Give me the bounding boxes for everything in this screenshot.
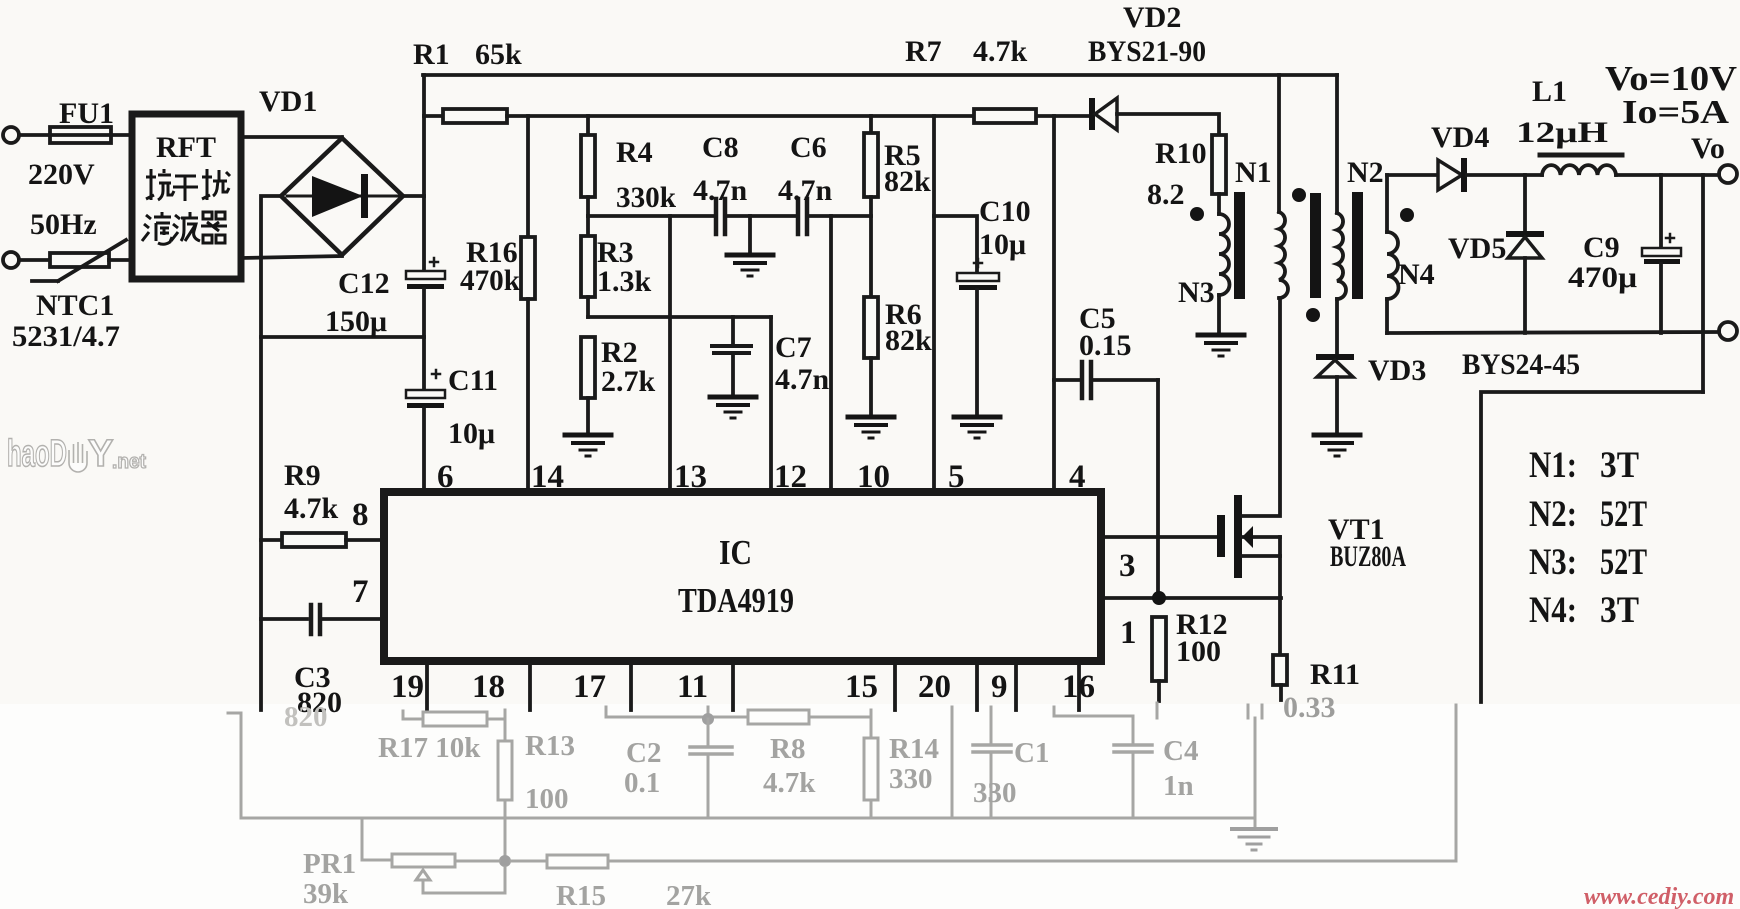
resistor R6: [864, 297, 878, 415]
svg-text:8.2: 8.2: [1147, 178, 1185, 211]
svg-text:R7: R7: [905, 35, 942, 68]
wire IC bottom pin 16: [1077, 661, 1081, 710]
resistor R1: [424, 109, 507, 123]
wire N4 top to VD4: [1387, 173, 1438, 177]
svg-text:0.33: 0.33: [1283, 691, 1336, 724]
svg-text:R17 10k: R17 10k: [378, 732, 481, 764]
watermark haoDIY.net: [7, 433, 146, 475]
svg-text:R9: R9: [284, 459, 321, 492]
wire pin13 vertical: [668, 216, 672, 492]
resistor R4: [581, 116, 595, 216]
terminal Vo+: [1719, 165, 1737, 183]
svg-text:TDA4919: TDA4919: [678, 581, 794, 620]
svg-text:150μ: 150μ: [325, 305, 387, 338]
node dot N2 polarity: [1306, 308, 1320, 322]
svg-text:11: 11: [677, 669, 708, 705]
wire pin20 gray vertical: [951, 707, 954, 818]
svg-text:N2:: N2:: [1529, 494, 1577, 535]
svg-text:19: 19: [391, 669, 424, 705]
svg-text:R13: R13: [525, 730, 575, 762]
wire input bottom: [19, 258, 50, 262]
wire R11 gray continuation: [1248, 705, 1262, 827]
svg-text:VD4: VD4: [1431, 121, 1489, 154]
svg-text:www.cediy.com: www.cediy.com: [1584, 884, 1734, 909]
svg-text:4.7k: 4.7k: [763, 767, 816, 799]
wire bridge right to main rail: [403, 194, 424, 198]
wire gray right vertical: [1455, 705, 1458, 861]
svg-text:C6: C6: [790, 131, 827, 164]
svg-text:27k: 27k: [666, 880, 712, 909]
wire input top: [19, 133, 50, 137]
capacitor C2: [690, 719, 732, 818]
svg-text:6: 6: [437, 459, 454, 495]
wire node216 left: [588, 214, 714, 218]
wire pin5 vertical: [932, 116, 936, 492]
wire VD5 tap: [1523, 175, 1527, 232]
svg-text:0.1: 0.1: [624, 767, 660, 799]
resistor R2: [581, 337, 595, 433]
wire node216 right: [809, 214, 871, 218]
wire VD4 to L1: [1467, 173, 1542, 177]
wire pin11 gray stub: [707, 707, 710, 719]
svg-text:R1: R1: [413, 38, 450, 71]
svg-text:5: 5: [948, 459, 965, 495]
ground gray: [1232, 829, 1276, 850]
svg-text:4.7n: 4.7n: [693, 174, 748, 207]
svg-text:N3:: N3:: [1529, 542, 1577, 583]
wire output bottom rail: [1387, 332, 1719, 333]
wire C5 down vertical: [1156, 380, 1160, 598]
resistor R11: [1273, 655, 1287, 700]
svg-text:3T: 3T: [1600, 590, 1639, 631]
node dot primary polarity: [1292, 188, 1306, 202]
svg-text:N4: N4: [1398, 258, 1435, 291]
svg-text:N1:: N1:: [1529, 445, 1577, 486]
svg-text:C1: C1: [1014, 737, 1049, 769]
transformer winding N2: [1337, 75, 1346, 355]
svg-text:7: 7: [352, 574, 369, 610]
抗: [146, 169, 174, 200]
svg-text:R10: R10: [1155, 137, 1207, 170]
svg-text:N4:: N4:: [1529, 590, 1577, 631]
resistor R13: [498, 710, 512, 861]
transformer primary winding N1: [1279, 75, 1288, 298]
svg-text:82k: 82k: [885, 324, 932, 357]
wire IC bottom pin 17: [629, 661, 633, 710]
svg-text:haoD: haoD: [7, 433, 67, 475]
svg-text:VD1: VD1: [259, 85, 317, 118]
wire pin1 line: [1102, 596, 1281, 600]
svg-text:BYS21-90: BYS21-90: [1088, 35, 1206, 68]
svg-text:C11: C11: [448, 364, 498, 397]
svg-text:Vo: Vo: [1691, 132, 1725, 165]
svg-text:.net: .net: [112, 451, 146, 473]
capacitor C6: [798, 199, 807, 234]
svg-text:FU1: FU1: [59, 97, 114, 130]
wire node317: [588, 315, 771, 319]
svg-text:PR1: PR1: [303, 848, 356, 880]
wire IC bottom pin 11: [731, 661, 735, 710]
svg-text:17: 17: [573, 669, 606, 705]
svg-text:1n: 1n: [1163, 770, 1194, 802]
干: [173, 176, 198, 201]
bridge rectifier VD1: [281, 138, 403, 255]
node junction gray C2: [702, 713, 714, 725]
svg-text:39k: 39k: [303, 878, 349, 909]
svg-text:20: 20: [918, 669, 951, 705]
svg-text:C2: C2: [626, 737, 661, 769]
wire PR1 left: [362, 818, 391, 860]
wire output right vertical: [1701, 175, 1705, 392]
resistor R5: [864, 116, 878, 297]
transformer winding N3: [1219, 214, 1230, 333]
svg-text:15: 15: [845, 669, 878, 705]
wire pin10 vertical: [829, 216, 833, 492]
thermistor NTC1: [32, 240, 126, 281]
capacitor C11: [406, 370, 445, 408]
svg-text:BUZ80A: BUZ80A: [1330, 540, 1406, 573]
wire node216 middle: [727, 214, 796, 218]
svg-text:C8: C8: [702, 131, 739, 164]
svg-text:1: 1: [1120, 615, 1137, 651]
svg-text:L1: L1: [1532, 75, 1567, 108]
svg-text:8: 8: [352, 497, 369, 533]
capacitor C10: [957, 259, 999, 415]
capacitor C1: [973, 707, 1011, 818]
wire second bus: [507, 114, 974, 118]
inductor L1: [1540, 155, 1622, 175]
transformer winding N4: [1387, 175, 1399, 333]
svg-text:VD3: VD3: [1368, 354, 1426, 387]
diode VD3: [1316, 354, 1354, 433]
svg-text:Y: Y: [88, 433, 113, 475]
svg-text:4.7k: 4.7k: [284, 492, 339, 525]
label Chinese kang gan rao lu bo qi: [142, 169, 230, 244]
resistor R9: [261, 533, 384, 547]
svg-text:C10: C10: [979, 195, 1031, 228]
wire IC bottom pin 20: [975, 661, 979, 710]
wire C10 tap: [934, 216, 977, 273]
svg-text:RFT: RFT: [156, 131, 216, 164]
wire IC bottom pin 15: [893, 661, 897, 710]
capacitor C4: [1054, 707, 1152, 818]
svg-text:VD2: VD2: [1123, 1, 1181, 34]
svg-text:NTC1: NTC1: [36, 289, 114, 322]
wire R12 gray stub: [1156, 703, 1159, 718]
svg-text:330: 330: [973, 777, 1017, 809]
transformer core bar 3: [1352, 192, 1363, 299]
svg-text:R8: R8: [770, 733, 805, 765]
wire pin6 vertical: [422, 408, 426, 492]
svg-text:Io=5A: Io=5A: [1622, 94, 1730, 131]
svg-text:C9: C9: [1583, 231, 1620, 264]
svg-text:10μ: 10μ: [448, 417, 495, 450]
svg-text:0.15: 0.15: [1079, 329, 1132, 362]
fuse FU1: [50, 127, 111, 143]
svg-text:100: 100: [525, 783, 569, 815]
扰: [202, 169, 230, 200]
diode VD2: [1089, 98, 1219, 135]
svg-text:220V: 220V: [28, 158, 95, 191]
resistor R10: [1212, 135, 1226, 214]
svg-text:50Hz: 50Hz: [30, 208, 97, 241]
svg-text:820: 820: [284, 701, 328, 733]
svg-text:3: 3: [1119, 548, 1136, 584]
svg-text:4.7k: 4.7k: [973, 35, 1028, 68]
node junction gray R13 PR1 R15: [499, 855, 511, 867]
capacitor C3: [261, 605, 384, 634]
resistor R12: [1152, 617, 1166, 701]
ground C10: [954, 417, 1000, 438]
node dot N4 polarity: [1400, 208, 1414, 222]
svg-text:13: 13: [674, 459, 707, 495]
wire main vertical mid segment: [422, 289, 426, 390]
wire top DC bus: [423, 73, 1337, 77]
ground R6: [848, 417, 894, 438]
svg-text:18: 18: [472, 669, 505, 705]
svg-text:N1: N1: [1235, 156, 1272, 189]
wire second bus right: [1036, 114, 1090, 118]
wire pin17 gray line: [606, 707, 748, 717]
wire filter to bridge top: [241, 135, 342, 139]
svg-text:C12: C12: [338, 267, 390, 300]
wire IC bottom pin 18: [528, 661, 532, 710]
terminal input bottom: [3, 252, 19, 268]
svg-text:BYS24-45: BYS24-45: [1462, 348, 1580, 381]
capacitor C5: [1054, 362, 1158, 398]
wire node left vertical: [261, 196, 281, 710]
波: [171, 212, 200, 241]
diode VD4: [1438, 158, 1467, 192]
wire IC bottom pin 19: [425, 661, 429, 711]
svg-text:4.7n: 4.7n: [775, 363, 830, 396]
wire FU1 to filter: [111, 133, 132, 137]
器: [201, 212, 227, 243]
ground VD3: [1314, 435, 1360, 456]
svg-text:1.3k: 1.3k: [597, 265, 652, 298]
svg-text:C7: C7: [775, 331, 812, 364]
svg-text:2.7k: 2.7k: [601, 365, 656, 398]
svg-text:N2: N2: [1347, 156, 1384, 189]
wire gray left vertical: [228, 713, 241, 818]
svg-text:N3: N3: [1178, 276, 1215, 309]
potentiometer PR1: [392, 854, 505, 893]
svg-text:R4: R4: [616, 136, 653, 169]
svg-text:4: 4: [1069, 459, 1086, 495]
svg-text:100: 100: [1176, 635, 1221, 668]
resistor R16: [521, 116, 535, 492]
capacitor C9: [1642, 175, 1681, 333]
svg-text:R14: R14: [889, 733, 939, 765]
wire gray ground bus: [241, 817, 1255, 820]
ground N3: [1198, 335, 1244, 356]
wire pin3 gate line: [1102, 535, 1216, 539]
svg-text:470k: 470k: [460, 264, 520, 297]
svg-text:R15: R15: [556, 880, 606, 909]
svg-text:Vo=10V: Vo=10V: [1605, 59, 1737, 98]
wire pin12 vertical: [769, 317, 773, 492]
wire L1 to Vo+: [1616, 173, 1719, 177]
transistor VT1 MOSFET: [1217, 298, 1280, 655]
svg-text:5231/4.7: 5231/4.7: [12, 320, 120, 353]
wire NTC1 to filter: [109, 258, 132, 262]
node junction pin1 R12 C5: [1152, 591, 1166, 605]
wire ground tap C8C6: [748, 216, 752, 253]
wire IC bottom pin 9: [1014, 661, 1018, 710]
滤: [142, 212, 172, 244]
svg-text:VD5: VD5: [1448, 232, 1506, 265]
svg-text:52T: 52T: [1600, 542, 1647, 583]
capacitor C7: [712, 317, 751, 395]
resistor R15: [511, 855, 1456, 868]
svg-text:C4: C4: [1163, 735, 1198, 767]
svg-text:12: 12: [774, 459, 807, 495]
svg-text:4.7n: 4.7n: [778, 174, 833, 207]
svg-text:16: 16: [1062, 669, 1095, 705]
capacitor C12: [406, 258, 445, 289]
resistor R3: [581, 216, 595, 317]
transformer core bar 2: [1310, 193, 1321, 298]
resistor R14: [864, 710, 878, 818]
svg-text:65k: 65k: [475, 38, 522, 71]
terminal input top: [3, 127, 19, 143]
svg-text:82k: 82k: [884, 165, 931, 198]
terminal Vo-: [1719, 322, 1737, 340]
svg-text:330: 330: [889, 763, 933, 795]
ground R2: [565, 435, 611, 456]
wire pin4 vertical: [1052, 116, 1056, 492]
svg-text:10μ: 10μ: [979, 228, 1026, 261]
svg-text:12μH: 12μH: [1516, 116, 1608, 149]
wire mid rail: [261, 335, 424, 339]
transformer core bar 1: [1234, 192, 1245, 299]
resistor R8: [748, 710, 871, 724]
svg-text:14: 14: [531, 459, 564, 495]
resistor R7: [974, 109, 1036, 123]
node dot N3 polarity: [1190, 207, 1204, 221]
svg-text:330k: 330k: [616, 181, 676, 214]
wire filter to bridge left: [241, 256, 342, 258]
svg-text:3T: 3T: [1600, 445, 1639, 486]
wire main left vertical top segment: [422, 75, 426, 272]
svg-text:52T: 52T: [1600, 494, 1647, 535]
ground between C8 C6: [727, 255, 773, 276]
ground C7: [710, 397, 756, 418]
wire return path: [1481, 392, 1703, 702]
label RFT box text: [156, 131, 216, 164]
diode VD5: [1506, 231, 1544, 333]
IC TDA4919 box: [384, 492, 1101, 661]
svg-text:470μ: 470μ: [1568, 261, 1637, 294]
capacitor C8: [716, 199, 725, 234]
svg-text:R11: R11: [1310, 658, 1360, 691]
RFT anti-interference filter box: [132, 114, 241, 279]
svg-text:IC: IC: [719, 533, 752, 572]
svg-text:10: 10: [857, 459, 890, 495]
resistor R17: [403, 711, 505, 726]
svg-text:9: 9: [991, 669, 1008, 705]
